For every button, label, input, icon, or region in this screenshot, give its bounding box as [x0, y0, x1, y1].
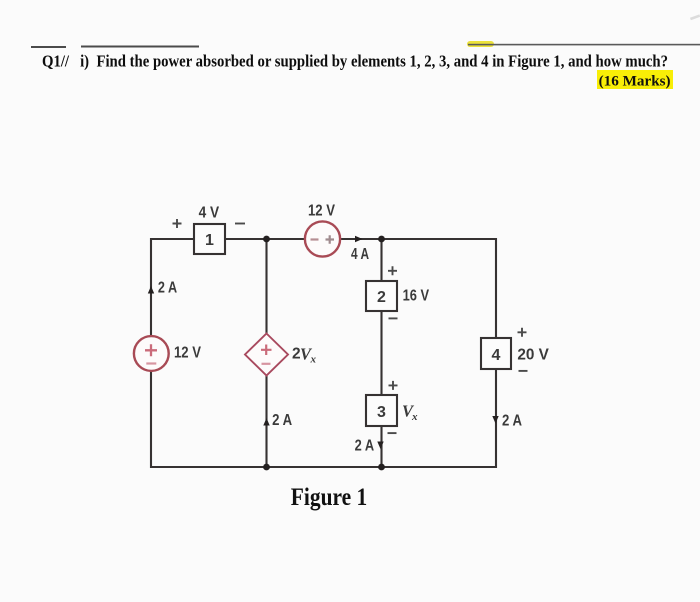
- independent voltage source 12 V left (circle): [134, 336, 169, 371]
- svg-text:3: 3: [377, 404, 386, 421]
- svg-text:20 V: 20 V: [517, 347, 549, 364]
- polarity minus inside diamond: [262, 363, 271, 365]
- wire top-left horizontal (left corner to element 1): [151, 238, 194, 240]
- polarity plus of element 1: [173, 219, 182, 228]
- polarity minus of element 1: [235, 223, 245, 225]
- element 1 box: [194, 224, 225, 254]
- polarity plus of element 4: [518, 328, 527, 337]
- polarity plus of element 3: [389, 381, 398, 390]
- element 2 box: [366, 281, 397, 311]
- polarity minus inside top source: [311, 238, 319, 240]
- wire left vertical upper: [150, 238, 152, 337]
- header underline middle: [81, 46, 199, 48]
- wire right vertical lower: [495, 369, 497, 468]
- node B junction dot: [378, 236, 385, 243]
- wire bottom horizontal: [151, 466, 496, 468]
- svg-text:x: x: [411, 411, 418, 423]
- svg-text:2: 2: [377, 289, 386, 306]
- faint mark top right corner: [690, 14, 700, 20]
- dependent source 2Vx (diamond): [245, 334, 288, 376]
- wire element 3 to node D: [380, 426, 382, 467]
- current arrow 2 A below element 3 (downward): [377, 442, 383, 450]
- header underline short left: [31, 46, 66, 48]
- yellow pen mark on right underline: [467, 41, 494, 47]
- node C junction dot: [263, 464, 270, 471]
- svg-text:4 V: 4 V: [199, 204, 220, 221]
- svg-text:Q1// i) Find the power abso: Q1// i) Find the power absorbed or suppl…: [42, 52, 668, 71]
- voltage source 12 V top (circle): [305, 221, 340, 256]
- wire element 1 to node A: [225, 238, 305, 240]
- node D junction dot: [378, 464, 385, 471]
- svg-text:x: x: [310, 354, 317, 366]
- element 4 box: [481, 338, 511, 369]
- wire left vertical lower: [150, 371, 152, 469]
- node A junction dot: [263, 236, 270, 243]
- polarity minus of element 3: [388, 432, 397, 434]
- header underline long right: [468, 44, 700, 46]
- polarity minus of element 2: [389, 317, 398, 319]
- svg-text:12 V: 12 V: [308, 202, 336, 219]
- polarity plus of element 2: [388, 266, 397, 275]
- polarity plus inside top source: [326, 235, 335, 244]
- wire middle vertical lower (diamond to node C): [265, 376, 267, 468]
- svg-text:4 A: 4 A: [351, 246, 369, 263]
- svg-text:4: 4: [492, 347, 501, 364]
- svg-text:16 V: 16 V: [403, 288, 430, 305]
- svg-text:2 A: 2 A: [355, 438, 375, 455]
- current arrow 2 A middle branch (upward): [263, 418, 269, 426]
- svg-text:(16 Marks): (16 Marks): [599, 73, 671, 90]
- element 3 box: [366, 395, 397, 426]
- wire right vertical upper: [495, 238, 497, 338]
- polarity plus inside diamond: [261, 345, 272, 356]
- wire source V12top to right corner: [340, 238, 496, 240]
- polarity minus inside left source: [146, 362, 156, 364]
- wire element 2 to element 3: [380, 311, 382, 395]
- wire middle vertical upper (node A to diamond): [265, 239, 267, 334]
- current arrow 4 A (rightward): [355, 236, 363, 242]
- marks highlight: [597, 70, 673, 89]
- svg-text:1: 1: [205, 232, 214, 249]
- polarity minus of element 4: [519, 370, 528, 372]
- label 2Vx: [292, 344, 317, 365]
- label Vx: [402, 402, 418, 424]
- svg-text:Figure 1: Figure 1: [291, 482, 368, 511]
- wire node B to element 2: [380, 239, 382, 281]
- current arrow 2 A left branch (upward): [148, 286, 154, 294]
- svg-text:12 V: 12 V: [174, 344, 202, 361]
- svg-text:2 A: 2 A: [502, 412, 522, 429]
- svg-text:2 A: 2 A: [158, 280, 177, 297]
- svg-text:2 A: 2 A: [272, 412, 292, 429]
- current arrow 2 A right branch (downward): [492, 416, 498, 424]
- polarity plus inside left source: [145, 344, 157, 356]
